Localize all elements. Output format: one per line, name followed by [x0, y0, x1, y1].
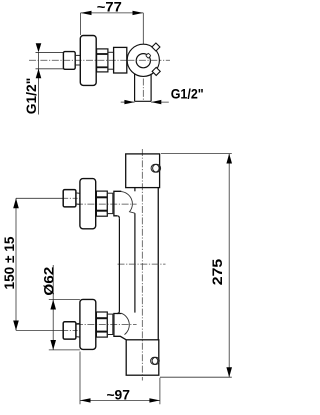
- upper connector lines: [76, 192, 80, 195]
- lower hex facet lines: [96, 317, 107, 319]
- O62 top extension line: [49, 299, 80, 301]
- column right edge: [157, 188, 159, 340]
- knob vertical centerline: [142, 44, 144, 101]
- outlet left edge (top view): [134, 74, 136, 102]
- svg-text:Ø62: Ø62: [40, 266, 56, 295]
- neck (top view): [108, 52, 114, 69]
- dimension ~77 arrow left: [81, 11, 92, 15]
- ~97 arrow right: [149, 398, 160, 402]
- outlet bottom edge (top view): [135, 100, 152, 102]
- svg-text:~97: ~97: [106, 387, 130, 403]
- lower elbow outline: [114, 314, 126, 340]
- mid body horizontal centerline: [118, 263, 166, 265]
- upper union nut: [63, 190, 76, 207]
- O62 arrow up: [50, 300, 56, 310]
- G1/2 arrow pointing down at pipe top: [36, 43, 42, 52]
- lower neck: [107, 314, 113, 334]
- ~97 right extension line: [159, 378, 161, 405]
- body column vertical centerline: [141, 149, 143, 381]
- lower union centerline: [76, 324, 137, 326]
- supply pipe bottom edge: [36, 68, 64, 70]
- svg-text:G1/2": G1/2": [171, 85, 204, 101]
- upper pipe centerline: [63, 197, 82, 199]
- bottom screw circles: [151, 357, 158, 364]
- bottom cap of body: [126, 340, 159, 375]
- upper hex nut: [96, 191, 107, 216]
- upper hex facet lines: [96, 196, 107, 198]
- ~97 arrow left: [80, 398, 91, 402]
- O62 dim line: [52, 265, 54, 350]
- O62 arrow down: [50, 340, 56, 350]
- svg-text:G1/2": G1/2": [23, 78, 39, 115]
- G1/2 outlet dimension line right segment: [151, 101, 169, 103]
- upper elbow corner to profile: [117, 216, 119, 219]
- lower union nut: [63, 322, 76, 339]
- svg-text:275: 275: [209, 259, 225, 286]
- top view horizontal centerline: [29, 59, 170, 61]
- union nut (top view): [63, 52, 75, 70]
- column left edge mid segment: [134, 213, 136, 312]
- connector between nut and escutcheon (top view): [75, 54, 80, 56]
- lower elbow corner from profile: [117, 311, 119, 314]
- 275 arrow up: [226, 154, 232, 164]
- lower elbow boss arc: [121, 313, 129, 334]
- 150-dim upper extension line: [16, 197, 63, 199]
- upper elbow outline: [114, 191, 121, 216]
- 150-dim lower extension line: [16, 329, 63, 331]
- G1/2 arrow pointing up at pipe bottom: [36, 69, 42, 78]
- dimension ~77 extension line right: [142, 13, 144, 44]
- left profile between elbows: [118, 218, 120, 311]
- O62 bottom extension line: [49, 349, 80, 351]
- ~97 dim line: [80, 399, 160, 401]
- escutcheon disc (top view): [80, 36, 96, 86]
- knob top-right tab: [152, 43, 160, 51]
- ~97 left extension line: [79, 352, 81, 405]
- 275 dim line: [228, 154, 230, 378]
- supply pipe top edge: [36, 51, 64, 53]
- upper neck: [107, 193, 113, 213]
- outlet right edge (top view): [150, 74, 152, 101]
- 275 bottom extension line: [160, 376, 232, 378]
- centerline cross redraw inside knob: [128, 59, 160, 61]
- lower connector lines: [76, 322, 80, 325]
- 150-dim arrow down: [13, 321, 19, 331]
- upper elbow boss arc: [121, 192, 135, 214]
- thermostat knob outer circle (top view): [127, 44, 159, 76]
- hex nut facet lines (top view): [97, 53, 108, 55]
- valve body block (top view): [114, 47, 127, 73]
- column left edge upper stub: [134, 188, 136, 192]
- knob inner circle detail tab: [146, 53, 151, 58]
- hex nut (top view): [97, 49, 108, 72]
- G1/2 outlet arrow right: [151, 100, 161, 104]
- lower pipe centerline: [63, 329, 82, 331]
- dimension ~77 extension line left: [80, 13, 82, 35]
- G1/2 outlet arrow left: [124, 100, 134, 104]
- svg-text:150 ± 15: 150 ± 15: [1, 236, 17, 289]
- G1/2 leader vertical line: [38, 52, 40, 114]
- top screw circles: [151, 164, 159, 172]
- lower escutcheon disc: [80, 299, 96, 349]
- knob bottom-right tab: [152, 67, 160, 75]
- top cap of body: [126, 154, 160, 188]
- upper union centerline: [76, 203, 137, 205]
- 150-dim line: [15, 198, 17, 330]
- knob inner circle: [136, 54, 150, 68]
- 150-dim arrow up: [13, 198, 19, 208]
- upper escutcheon disc: [80, 179, 96, 229]
- 275 arrow down: [226, 367, 232, 377]
- lower hex nut: [96, 312, 107, 337]
- svg-text:~77: ~77: [97, 0, 122, 15]
- dimension ~77 arrow right: [133, 11, 144, 15]
- G1/2 outlet dimension line left segment: [121, 101, 135, 103]
- 275 top extension line: [161, 153, 232, 155]
- dimension ~77 line: [81, 12, 144, 14]
